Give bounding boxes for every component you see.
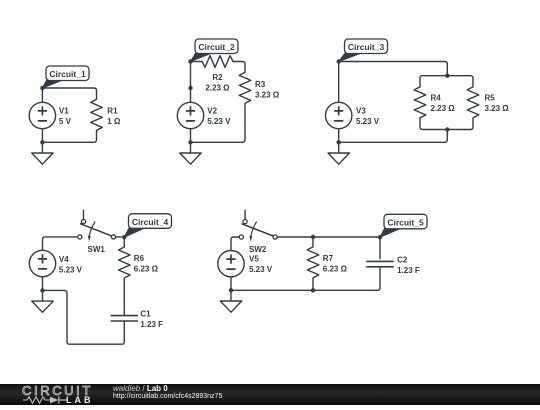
label R2 value xyxy=(205,73,230,92)
wire: C1 bottom loop to ground node xyxy=(43,290,125,344)
resistor R3 xyxy=(239,72,251,103)
wire: V1 bottom to node xyxy=(41,129,43,143)
footer bar xyxy=(0,384,540,405)
node: Circuit_5 flag junction xyxy=(378,235,382,239)
svg-text:C1: C1 xyxy=(140,310,151,319)
wire: R7 bottom to rail xyxy=(312,278,314,290)
wire: V3 bottom to node xyxy=(338,129,340,143)
node label flag Circuit_4 xyxy=(124,214,171,237)
svg-text:6.23 Ω: 6.23 Ω xyxy=(134,265,159,274)
svg-text:1.23 F: 1.23 F xyxy=(140,320,163,329)
wire: Circuit_3 top rail xyxy=(339,62,448,76)
voltage source V4 xyxy=(29,250,55,276)
label R5 value xyxy=(485,93,510,112)
svg-text:3.23 Ω: 3.23 Ω xyxy=(255,90,280,99)
wire: parallel top bar xyxy=(420,76,473,87)
node: Circuit_4 ground junction xyxy=(40,288,44,292)
wire: V5 bottom to node xyxy=(230,277,232,290)
svg-text:1.23 F: 1.23 F xyxy=(397,266,420,275)
svg-text:Circuit_4: Circuit_4 xyxy=(132,217,169,227)
svg-text:V3: V3 xyxy=(356,107,366,116)
node label flag Circuit_5 xyxy=(380,214,427,237)
label V2 value xyxy=(207,107,231,126)
wire: R3 bottom to bottom rail xyxy=(191,103,246,142)
wire: node down to V2 xyxy=(190,62,192,103)
label V3 value xyxy=(356,107,380,126)
capacitor C2 xyxy=(366,261,393,266)
resistor R1 xyxy=(91,99,103,130)
svg-text:R7: R7 xyxy=(323,254,334,263)
label C1 value xyxy=(140,310,163,329)
label R6 value xyxy=(134,254,159,273)
resistor R2 xyxy=(202,56,233,68)
node: R7 top junction xyxy=(311,235,315,239)
svg-text:2.23 Ω: 2.23 Ω xyxy=(205,83,230,92)
label SW2 xyxy=(249,245,267,254)
label V5 value xyxy=(249,255,273,274)
label R3 value xyxy=(255,80,280,99)
node: Circuit_2 wire junction xyxy=(188,86,192,90)
svg-text:Circuit_2: Circuit_2 xyxy=(198,42,235,52)
switch SW2 (SPDT) xyxy=(239,210,277,242)
svg-text:2.23 Ω: 2.23 Ω xyxy=(431,104,456,113)
switch SW1 (SPDT) xyxy=(78,210,116,242)
label V4 value xyxy=(59,255,83,274)
svg-text:SW2: SW2 xyxy=(249,245,267,254)
node: Circuit_2 bottom junction xyxy=(188,140,192,144)
node: Circuit_3 top junction xyxy=(337,59,341,63)
svg-text:5.23 V: 5.23 V xyxy=(249,265,273,274)
svg-text:V5: V5 xyxy=(249,255,259,264)
wire: R6 to C1 xyxy=(123,278,125,316)
wire: SW1 pole to V4 xyxy=(43,237,78,250)
wire: node down to R6 xyxy=(123,237,125,247)
svg-text:R3: R3 xyxy=(255,80,266,89)
wire: Circuit_2 node to R2 xyxy=(191,61,203,63)
svg-text:3.23 Ω: 3.23 Ω xyxy=(485,104,510,113)
node: R7 bottom junction xyxy=(311,288,315,292)
node: Circuit_1 top junction xyxy=(40,86,44,90)
label SW1 xyxy=(88,245,106,254)
voltage source V1 xyxy=(29,102,55,128)
wire: V2 bottom to node xyxy=(190,129,192,143)
wire: C2 bottom rail to node xyxy=(231,267,380,291)
ground (Circuit_2) xyxy=(180,142,201,164)
wire: R1 bottom to bottom rail xyxy=(42,130,96,142)
logo resistor squiggle and diode xyxy=(23,396,50,402)
svg-text:V4: V4 xyxy=(59,255,69,264)
CircuitLab logo xyxy=(22,385,102,405)
svg-text:R1: R1 xyxy=(107,107,118,116)
label C2 value xyxy=(397,256,420,275)
voltage source V2 xyxy=(177,102,203,128)
ground (Circuit_3) xyxy=(328,142,349,164)
wire: SW2 throw to C2 top xyxy=(277,237,380,259)
svg-text:V2: V2 xyxy=(207,107,217,116)
svg-text:6.23 Ω: 6.23 Ω xyxy=(323,265,348,274)
wire: SW1 throw to node xyxy=(116,236,125,238)
label R1 value xyxy=(107,107,121,126)
ground (Circuit_5) xyxy=(220,290,241,312)
node label flag Circuit_2 xyxy=(191,39,239,62)
wire: junction down to R7 xyxy=(312,237,314,247)
svg-text:R2: R2 xyxy=(212,73,223,82)
resistor R5 xyxy=(467,87,479,118)
svg-text:Circuit_5: Circuit_5 xyxy=(387,217,424,227)
wire: R2 to R3 top xyxy=(233,62,245,73)
svg-text:5 V: 5 V xyxy=(59,117,72,126)
label V1 value xyxy=(59,107,72,126)
resistor R7 xyxy=(307,247,319,278)
node: Circuit_4 flag junction xyxy=(122,235,126,239)
wire: node down to V3 xyxy=(338,62,340,103)
resistor R6 xyxy=(119,247,131,278)
capacitor C1 xyxy=(111,316,138,321)
voltage source V5 xyxy=(218,251,244,277)
node: Circuit_5 ground junction xyxy=(229,288,233,292)
svg-text:1 Ω: 1 Ω xyxy=(107,117,121,126)
node: parallel top junction xyxy=(445,74,449,78)
ground (Circuit_1) xyxy=(32,142,53,164)
node: Circuit_1 bottom junction xyxy=(40,140,44,144)
svg-text:C2: C2 xyxy=(397,256,408,265)
svg-text:R4: R4 xyxy=(431,93,442,102)
svg-text:5.23 V: 5.23 V xyxy=(207,117,231,126)
svg-text:Circuit_3: Circuit_3 xyxy=(348,42,385,52)
svg-text:5.23 V: 5.23 V xyxy=(59,265,83,274)
wire: SW2 pole to V5 xyxy=(231,237,239,251)
node: parallel bottom junction xyxy=(445,127,449,131)
node: Circuit_3 bottom junction xyxy=(337,140,341,144)
svg-text:R5: R5 xyxy=(485,93,496,102)
resistor R4 xyxy=(414,87,426,118)
svg-text:SW1: SW1 xyxy=(88,245,106,254)
wire: node to V1 top xyxy=(41,88,43,102)
wire: V4 bottom to node xyxy=(42,277,44,291)
svg-text:R6: R6 xyxy=(134,254,145,263)
svg-text:5.23 V: 5.23 V xyxy=(356,117,380,126)
wire: parallel bottom bar xyxy=(420,118,473,130)
svg-text:V1: V1 xyxy=(59,107,69,116)
label R4 value xyxy=(431,93,456,112)
svg-text:Circuit_1: Circuit_1 xyxy=(49,69,86,79)
wire: bottom rail xyxy=(339,130,448,143)
node label flag Circuit_3 xyxy=(339,39,388,62)
node label flag Circuit_1 xyxy=(42,66,89,88)
ground (Circuit_4) xyxy=(32,290,53,312)
voltage source V3 xyxy=(326,102,352,128)
node: Circuit_2 top junction xyxy=(188,59,192,63)
label R7 value xyxy=(323,254,348,273)
wire: Circuit_1 top rail node to R1 xyxy=(42,88,96,99)
